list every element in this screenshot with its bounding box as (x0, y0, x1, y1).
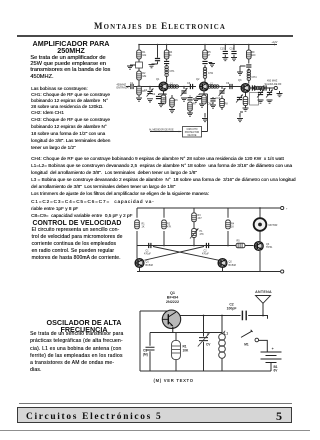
svg-text:C9: C9 (226, 82, 230, 85)
svg-text:47: 47 (208, 54, 211, 57)
svg-text:18k: 18k (142, 75, 147, 78)
svg-text:10K: 10K (183, 348, 190, 352)
svg-text:ANTENA: ANTENA (255, 290, 272, 294)
svg-text:10k: 10k (142, 54, 147, 57)
svg-text:47K: 47K (167, 226, 172, 229)
svg-text:4K7: 4K7 (198, 217, 203, 220)
svg-text:AL MEDIDOR DE ROE: AL MEDIDOR DE ROE (149, 128, 174, 131)
svg-text:L1: L1 (224, 331, 228, 335)
svg-text:1K: 1K (231, 226, 234, 229)
svg-text:47K: 47K (200, 233, 205, 236)
svg-text:BC548: BC548 (229, 264, 237, 267)
svg-text:R8: R8 (225, 103, 229, 106)
svg-text:BF494: BF494 (167, 296, 179, 300)
svg-text:BC548: BC548 (146, 264, 154, 267)
svg-text:470uF: 470uF (202, 253, 209, 256)
svg-text:DE ROE: DE ROE (188, 135, 197, 137)
svg-text:100pF: 100pF (227, 306, 237, 310)
svg-text:1K: 1K (142, 226, 145, 229)
svg-text:R5: R5 (237, 240, 241, 243)
svg-text:PROTECTOR: PROTECTOR (185, 132, 200, 134)
svg-text:+: + (286, 208, 288, 211)
svg-text:470uF: 470uF (144, 253, 151, 256)
svg-text:2N2222: 2N2222 (166, 300, 179, 304)
svg-text:+12V: +12V (272, 41, 278, 44)
svg-text:SALIDA DE RF: SALIDA DE RF (265, 83, 282, 86)
svg-text:C10: C10 (216, 97, 221, 100)
svg-text:Q3: Q3 (238, 79, 242, 82)
svg-text:M1: M1 (244, 343, 249, 347)
svg-text:Q1: Q1 (156, 78, 160, 81)
svg-text:CV: CV (206, 342, 211, 346)
svg-text:C2: C2 (144, 89, 148, 92)
svg-text:100: 100 (251, 54, 256, 57)
svg-text:C16: C16 (230, 48, 235, 51)
svg-text:CH4: CH4 (252, 76, 258, 79)
svg-text:CH1: CH1 (170, 70, 176, 73)
svg-text:R6: R6 (175, 99, 179, 102)
svg-text:Q1: Q1 (170, 291, 175, 295)
svg-text:CH2: CH2 (208, 72, 214, 75)
svg-text:1k: 1k (169, 54, 172, 57)
svg-text:C2: C2 (152, 93, 156, 96)
svg-text:CIRCUITO: CIRCUITO (186, 129, 197, 131)
svg-text:+: + (272, 347, 274, 351)
svg-text:(M) VER TEXTO: (M) VER TEXTO (154, 378, 194, 383)
svg-text:6V: 6V (274, 369, 279, 373)
svg-text:Q2: Q2 (196, 78, 200, 81)
svg-text:ENTRADA: ENTRADA (117, 87, 129, 90)
svg-text:C15: C15 (220, 48, 225, 51)
svg-text:(M): (M) (143, 352, 148, 356)
svg-text:MOTOR: MOTOR (269, 224, 278, 227)
svg-text:CH3: CH3 (208, 103, 214, 106)
svg-text:R7: R7 (193, 103, 197, 106)
svg-text:TIP31: TIP31 (266, 246, 273, 249)
